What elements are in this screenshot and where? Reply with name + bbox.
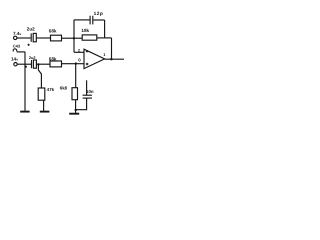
op-amp plus sign [86, 63, 89, 66]
output node junction dot [110, 58, 112, 60]
wire feedback vertical down to output node [111, 38, 113, 59]
plus sign of C1 polarity [28, 44, 30, 46]
wire hook to ground drop [17, 51, 25, 53]
wire R5 right lead to feedback vertical [97, 37, 112, 39]
terminal T2 (input 2) [14, 62, 17, 65]
resistor R1 68k [51, 35, 62, 41]
wire T2 to C2 [17, 63, 31, 65]
wire cap branch down [104, 20, 106, 38]
ground G2 bar [40, 111, 50, 113]
wire feedback cap branch top right [93, 19, 104, 21]
svg-text:6k8: 6k8 [60, 85, 68, 90]
wire node C to op-amp non-inverting input [76, 63, 84, 65]
wire node A down to inverting input [73, 38, 75, 52]
wire ground node to C3 bottom [76, 98, 87, 110]
capacitor C5 12p plates [89, 16, 91, 25]
wire R2 to ground [43, 100, 45, 111]
svg-text:2u2: 2u2 [27, 26, 35, 31]
wire R3 to ground node [75, 100, 77, 110]
plus sign of C2 polarity [25, 66, 27, 68]
op-amp minus sign [86, 51, 88, 52]
wire to op-amp inverting input [74, 51, 84, 53]
svg-text:68k: 68k [49, 57, 57, 62]
wire node B down to R2 (slight slant) [38, 64, 41, 88]
capacitor C1 2u2 (electrolytic: bar + open box) [30, 33, 32, 41]
svg-text:47k: 47k [47, 87, 55, 92]
wire R4 to node C [62, 63, 76, 65]
ground G3 bar [69, 113, 79, 115]
svg-text:12p: 12p [94, 11, 104, 17]
wire feedback cap branch top left [74, 19, 90, 21]
svg-text:C43: C43 [13, 44, 21, 49]
wire C1 to R1 [36, 37, 50, 39]
resistor R5 18k (feedback) left lead [74, 37, 82, 39]
op-amp U1 triangle [84, 49, 105, 68]
resistor R3 6k8 (vertical) [72, 88, 78, 100]
ground node junction dot [75, 109, 77, 111]
wire C3 top lead (floating stub toward op-amp) [86, 80, 88, 95]
wire node C down to R3 [75, 64, 77, 88]
svg-text:10n: 10n [86, 89, 94, 94]
wire G3 lead [75, 110, 77, 113]
node C junction dot [75, 62, 77, 64]
capacitor C2 2u2 (electrolytic: bar + open box) [31, 60, 33, 68]
resistor R4 68k [50, 61, 62, 67]
wire node A up to feedback cap branch [73, 20, 75, 39]
wire C2 to node B [36, 63, 50, 65]
resistor R5 18k box [82, 35, 97, 40]
svg-text:68k: 68k [49, 28, 57, 33]
wire T1 to C1 [17, 37, 31, 39]
svg-text:2u2: 2u2 [29, 55, 37, 60]
node B junction dot [37, 63, 39, 65]
svg-text:7.4v: 7.4v [13, 31, 21, 36]
terminal ground hook [13, 49, 17, 52]
resistor R2 47k (vertical) [38, 88, 45, 100]
node A junction dot [73, 37, 75, 39]
wire R1 to node A [62, 37, 74, 39]
capacitor C3 10n plates (horizontal) [83, 94, 92, 96]
svg-text:18k: 18k [81, 28, 89, 33]
terminal T1 (input 1) [14, 36, 17, 39]
svg-text:14v: 14v [11, 57, 18, 62]
wire left ground drop vertical [24, 52, 26, 111]
svg-text:2: 2 [78, 48, 80, 52]
op-amp output wire [105, 58, 124, 60]
ground G1 bar [20, 111, 29, 113]
